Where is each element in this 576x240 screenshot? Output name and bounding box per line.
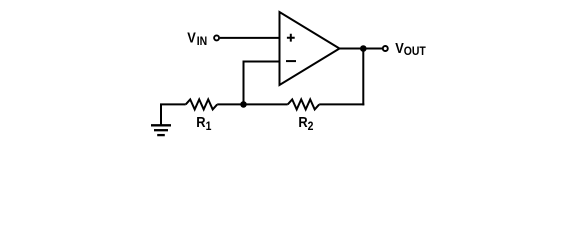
svg-text:VIN: VIN	[187, 29, 207, 49]
resistor R2	[288, 99, 320, 109]
ground	[151, 125, 171, 135]
label Vin	[187, 29, 207, 49]
op-amp plus input symbol	[287, 34, 295, 42]
wire: feedback vertical from inverting input down to node A	[243, 61, 245, 105]
label R1	[196, 113, 212, 133]
wire: R2 right lead to output vertical	[319, 103, 364, 105]
wire: output vertical down to R2	[362, 49, 364, 106]
terminal Vout (open circle)	[383, 46, 388, 51]
junction node A: R1/R2/feedback	[240, 101, 247, 108]
op-amp minus input symbol	[286, 60, 296, 62]
svg-text:R1: R1	[196, 113, 212, 133]
terminal Vin (open circle)	[214, 35, 219, 40]
junction node: output to feedback	[360, 45, 367, 52]
svg-text:R2: R2	[298, 113, 313, 133]
wire: op-amp output to Vout terminal	[339, 48, 383, 50]
wire: ground corner to R1 left lead	[161, 104, 186, 126]
resistor R1	[186, 99, 218, 109]
op-amp U1	[280, 12, 340, 85]
wire: Vin terminal to op-amp non-inverting input	[220, 37, 281, 39]
label R2	[298, 113, 313, 133]
svg-text:VOUT: VOUT	[395, 39, 426, 58]
wire: node A segment between R1 and R2	[217, 103, 288, 105]
label Vout	[395, 39, 426, 58]
wire: inverting input horizontal	[244, 61, 281, 63]
